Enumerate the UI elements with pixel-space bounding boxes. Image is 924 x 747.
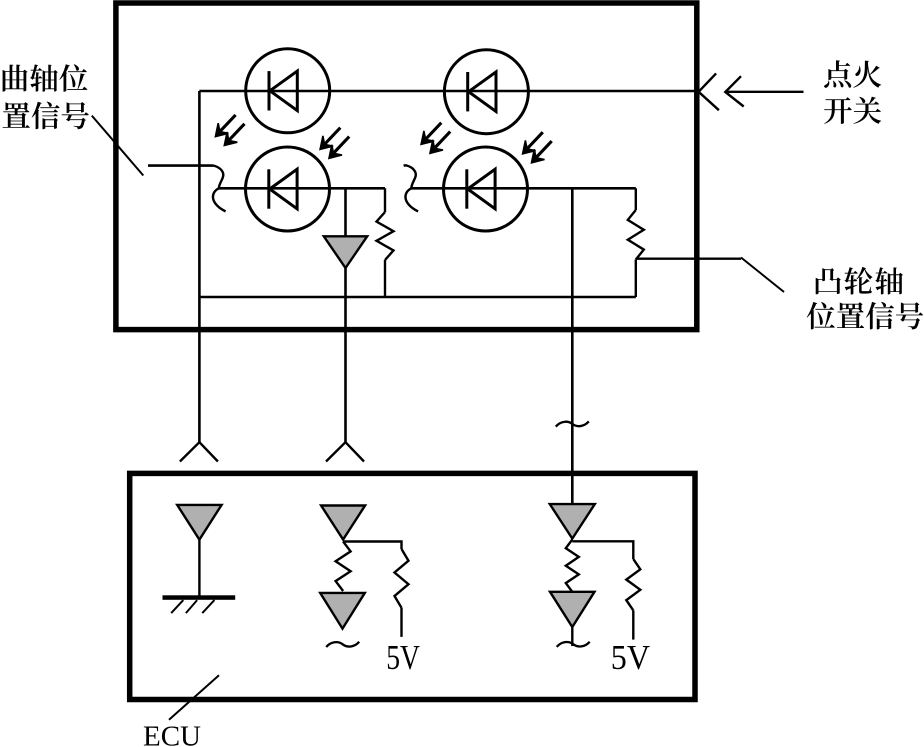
- label: camshaft position signal (line 2): [807, 302, 924, 330]
- resistor R5: [566, 540, 579, 592]
- resistor R1 (left load): [384, 188, 386, 212]
- wire: crankshaft signal lead entering box: [148, 164, 214, 167]
- wire: middle vertical from D3 wire down: [344, 188, 347, 236]
- tilde under middle lower triangle: [326, 642, 359, 647]
- ground bar: [163, 595, 236, 600]
- wire-break tilde on right bus: [556, 421, 589, 426]
- leader line for ECU label: [169, 675, 219, 720]
- ECU triangle right upper: [550, 504, 595, 538]
- LED D1: [246, 49, 330, 133]
- light arrows pair 3: [421, 123, 450, 154]
- LED D2: [444, 50, 528, 134]
- label: crankshaft position signal (line 2): [3, 102, 89, 130]
- wire to ground: [198, 540, 200, 596]
- svg-text:5V: 5V: [386, 638, 420, 677]
- connector fork middle: [326, 442, 364, 461]
- flexible-lead squiggle right: [404, 165, 419, 211]
- ECU triangle middle upper: [321, 506, 365, 540]
- wire to R4: [343, 542, 401, 550]
- amplifier triangle inside sensor: [324, 236, 367, 268]
- svg-text:5V: 5V: [611, 639, 650, 677]
- wire: left vertical bus down to ECU fork: [198, 91, 201, 442]
- photodiode D4: [444, 147, 528, 231]
- ground hatch 3: [202, 600, 214, 613]
- wire: photodiode D4 row wire: [411, 187, 636, 190]
- light arrows pair 4: [523, 132, 552, 163]
- ECU box: [130, 473, 695, 699]
- label: ignition switch (line 1): [824, 60, 881, 88]
- wire: ignition switch lead: [725, 91, 803, 93]
- ECU triangle middle lower: [320, 593, 365, 629]
- wire below R4: [400, 608, 402, 637]
- wire: top supply rail from ignition input across LEDs: [199, 90, 696, 93]
- ground hatch 2: [186, 600, 197, 613]
- light arrows pair 1: [215, 115, 244, 146]
- photodiode D3: [246, 147, 330, 231]
- ignition switch arrow chevron 2: [725, 76, 743, 106]
- wire: right vertical bus down into ECU: [571, 188, 574, 504]
- wire: inner bottom return rail: [199, 296, 635, 299]
- ignition switch arrow chevron 1: [699, 73, 719, 110]
- ECU triangle right lower: [550, 592, 595, 627]
- label: ignition switch (line 2): [824, 97, 881, 124]
- label: crankshaft position signal (line 1): [3, 64, 88, 91]
- ECU input triangle left: [177, 505, 221, 540]
- resistor R4: [395, 549, 409, 608]
- wire below R6: [632, 610, 634, 639]
- resistor R6: [626, 559, 640, 610]
- leader line for crankshaft label: [92, 116, 144, 176]
- wire: photodiode D3 row wire: [219, 187, 386, 190]
- wire stub below right lower triangle: [571, 627, 573, 646]
- ground hatch 1: [171, 600, 183, 613]
- flexible-lead squiggle left: [213, 166, 226, 212]
- leader line for camshaft label: [741, 258, 784, 293]
- connector fork left: [180, 442, 218, 461]
- svg-text:ECU: ECU: [143, 721, 201, 747]
- light arrows pair 2: [320, 128, 349, 159]
- resistor R2 (right load): [635, 188, 637, 210]
- wire: camshaft signal output: [636, 258, 741, 260]
- sensor housing box: [116, 3, 697, 330]
- label: camshaft position signal (line 1): [816, 267, 903, 295]
- wire: middle vertical bus to ECU fork: [344, 268, 347, 442]
- resistor R3: [336, 542, 351, 592]
- tilde under right lower triangle: [557, 642, 590, 647]
- wire to R6: [572, 541, 633, 559]
